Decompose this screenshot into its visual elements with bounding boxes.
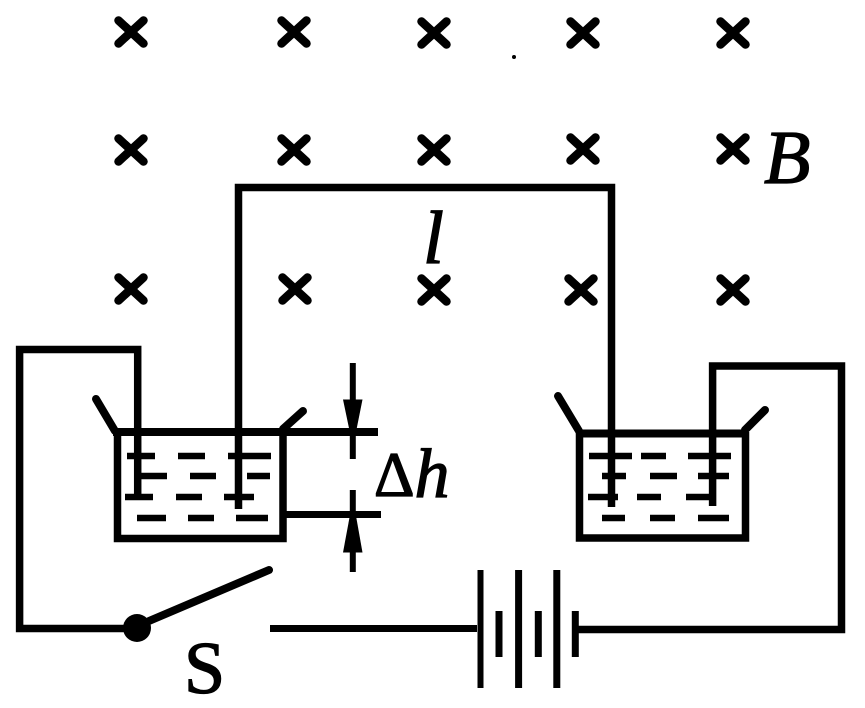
field symbol x row3 col1 bbox=[119, 278, 144, 301]
left cup liquid dashes row2 bbox=[138, 473, 270, 480]
field symbol x row1 col4 bbox=[571, 22, 596, 45]
left cup body bbox=[118, 431, 284, 539]
right cup rim line bbox=[576, 430, 748, 438]
battery cell2 long plate bbox=[515, 570, 522, 688]
svg-text:Δh: Δh bbox=[374, 436, 450, 513]
right cup liquid dashes row3 bbox=[588, 494, 715, 501]
switch S pivot dot bbox=[123, 614, 151, 642]
right cup left flare bbox=[558, 396, 579, 431]
field symbol x row2 col3 bbox=[422, 139, 447, 162]
dimension lower extension line bbox=[283, 511, 381, 518]
field symbol x row3 col5 bbox=[721, 279, 746, 302]
dimension line delta-h upper shaft bbox=[350, 363, 356, 402]
switch S lever bbox=[149, 570, 269, 621]
field symbol x row3 col3 bbox=[422, 279, 447, 302]
battery cell3 short plate bbox=[572, 611, 579, 657]
field symbol x row1 col1 bbox=[119, 21, 144, 44]
right cup body bbox=[580, 432, 746, 538]
battery cell2 short plate bbox=[535, 611, 542, 657]
wire left outer (to left cup electrode) bbox=[20, 350, 138, 629]
svg-text:B: B bbox=[764, 116, 810, 200]
svg-text:l: l bbox=[423, 197, 444, 280]
left cup right flare bbox=[283, 411, 303, 429]
dimension line delta-h lower stub bbox=[350, 490, 356, 517]
field symbol x row2 col1 bbox=[119, 139, 144, 162]
dimension arrow up shaft bbox=[350, 551, 356, 572]
dimension arrow down bbox=[343, 400, 363, 432]
battery cell1 short plate bbox=[496, 611, 503, 657]
field symbol x row2 col4 bbox=[571, 138, 596, 161]
dimension arrow up bbox=[343, 517, 363, 553]
field symbol x row1 col2 bbox=[282, 21, 307, 44]
field symbol x row1 col5 bbox=[721, 22, 746, 45]
left cup left flare bbox=[96, 399, 115, 431]
battery cell1 long plate bbox=[478, 570, 484, 688]
left cup liquid dashes row3 bbox=[125, 494, 254, 501]
conductor rod with hanging legs bbox=[239, 188, 612, 510]
left cup liquid dashes row4 bbox=[137, 515, 268, 522]
field symbol x row2 col2 bbox=[282, 139, 307, 162]
right cup liquid dashes row1 bbox=[589, 453, 731, 460]
field symbol x row3 col2 bbox=[283, 278, 308, 301]
field symbol x row2 col5 bbox=[721, 138, 746, 161]
battery cell3 long plate bbox=[553, 570, 560, 688]
wire right outer (electrode up, over, down to battery) bbox=[578, 366, 842, 630]
right cup liquid dashes row4 bbox=[602, 515, 729, 522]
speck dot bbox=[512, 55, 516, 59]
field symbol x row1 col3 bbox=[422, 22, 447, 45]
left cup liquid dashes row1 bbox=[127, 453, 271, 460]
wire switch to battery bbox=[270, 625, 477, 632]
dimension arrow down tail bbox=[350, 430, 356, 459]
right cup right flare bbox=[745, 410, 765, 430]
svg-text:S: S bbox=[184, 628, 225, 708]
left cup rim line extended to dimension bbox=[113, 428, 378, 436]
right cup liquid dashes row2 bbox=[602, 473, 729, 480]
field symbol x row3 col4 bbox=[569, 279, 594, 302]
